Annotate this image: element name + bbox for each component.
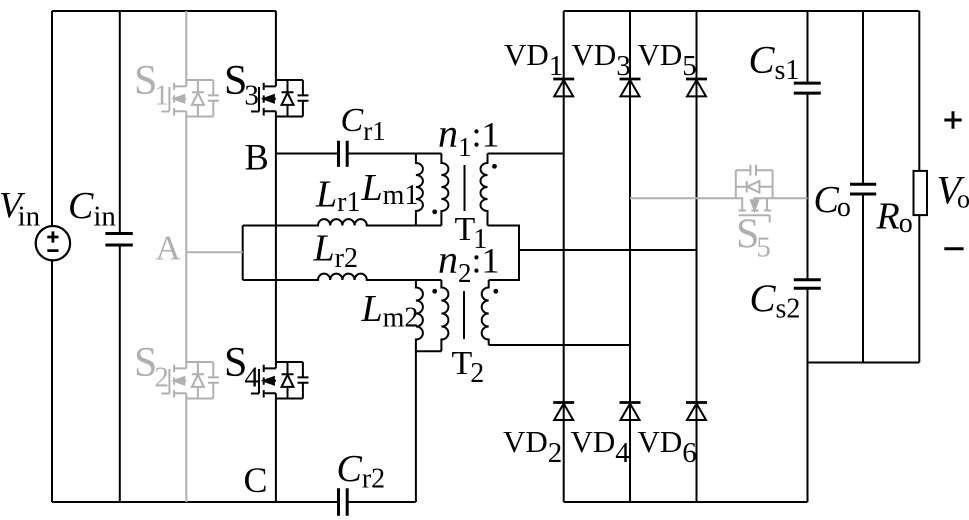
- svg-text:B: B: [245, 137, 269, 178]
- svg-text:C: C: [244, 460, 268, 500]
- svg-text:A: A: [156, 229, 182, 268]
